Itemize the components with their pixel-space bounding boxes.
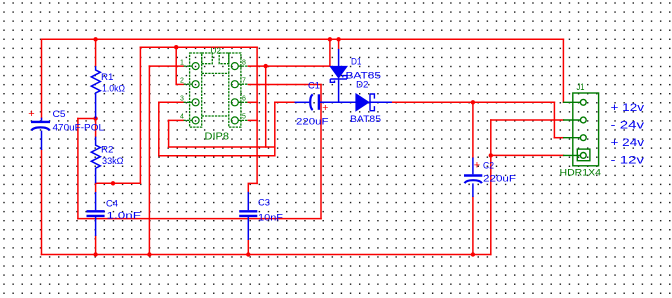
wire C5 bottom to ground rail [41,150,43,255]
wire horizontal y147 [169,146,275,148]
wire riser x176.2 to pin2 [175,47,177,84]
wire pin3 horizontal [159,101,184,103]
wire riser x274.8 to C1 left [274,102,276,155]
U2 pin leads left [184,65,192,67]
wire left drop from rail to C5 [41,39,43,117]
wire J1 pin2 horizontal [491,119,564,121]
wire C2 top drop [472,102,474,157]
svg-text:1.0nF: 1.0nF [107,211,142,222]
svg-text:C3: C3 [258,198,270,209]
wire pin4 horizontal [169,119,184,121]
IC socket U2 DIP8 (dashed green) [184,53,249,127]
svg-text:U2: U2 [211,46,222,56]
diode D1 BAT85 (pointing down) [330,49,347,102]
svg-text:+ 24v: + 24v [611,137,645,149]
wire left branch vertical x78 [77,119,79,219]
svg-text:220uF: 220uF [483,174,516,185]
svg-text:3: 3 [180,96,184,103]
wire riser x554.4 to J1 pin3 [553,102,555,137]
wire R2 bottom horizontal y183.3 [96,182,141,184]
svg-text:J1: J1 [577,82,585,93]
wire J1 pin3 stub [554,137,563,139]
junction rail/x329.9 [328,37,332,41]
wire pin6 stub [248,101,257,103]
wire C3 bottom to ground rail [247,240,249,255]
wire D2 output to J1 [392,101,555,103]
svg-text:2: 2 [180,78,184,85]
svg-text:+: + [474,160,480,172]
wire J1 pin1 drop from rail [562,39,564,102]
wire v2 x149.4 pin1 to ground [148,66,150,254]
junction x490.8/pin4 [489,153,493,157]
wire pin5 stub [248,119,257,121]
wire second rail y47.2 [140,46,257,48]
junction R1/R2 node [93,116,97,120]
junction ground/C2 [471,252,475,256]
junction second rail/riser [174,45,178,49]
wire riser x329.9 rail to pin8 line [329,39,331,66]
wire R1 top drop from rail [95,39,97,66]
svg-text:- 24v: - 24v [611,120,645,132]
svg-text:470uF-POL: 470uF-POL [53,123,105,134]
wire node R1-R2 branch horizontal [78,118,96,120]
junction ground/C4 [93,252,97,256]
svg-text:C1: C1 [308,81,320,92]
wire top +V rail [42,38,564,40]
svg-text:+: + [322,102,328,114]
svg-text:C2: C2 [483,161,494,172]
wire bottom ground rail [42,254,491,256]
svg-text:HDR1X4: HDR1X4 [560,168,602,179]
svg-text:33kΩ: 33kΩ [102,156,124,167]
svg-text:+: + [28,108,34,120]
svg-text:C4: C4 [106,199,118,210]
svg-text:+ 12v: + 12v [611,102,645,114]
svg-text:R2: R2 [101,145,114,156]
resistor R2 [91,137,100,184]
svg-text:- 12v: - 12v [611,155,645,167]
junction ground/v2 [147,252,151,256]
wire pin7 horizontal [248,84,321,86]
capacitor C4 [87,192,105,236]
svg-text:C5: C5 [53,109,66,120]
wire v1 x140.4 second-rail drop [139,47,141,183]
capacitor C3 [239,192,257,240]
wire C4 top stub [95,183,97,192]
wire pin1 horizontal [149,65,183,67]
junction ground/C3 [246,252,250,256]
resistor R1 [91,66,100,118]
wire pin3 drop x158.8 [158,102,160,155]
svg-text:1: 1 [180,60,184,67]
svg-text:D2: D2 [356,80,369,91]
junction pin8 line [264,64,268,68]
wire long vertical x257.1 [256,47,258,183]
wire horizontal y155.7 [159,155,275,157]
wire C2 bottom to ground rail [472,197,474,255]
wire C1 left connection [275,101,295,103]
svg-text:10nF: 10nF [258,213,283,224]
wire drop x265.7 from pin8 line [265,66,267,147]
svg-text:DIP8: DIP8 [205,132,230,143]
svg-text:1.0kΩ: 1.0kΩ [102,84,125,95]
wire J1 pin4 horizontal [491,154,564,156]
wire pin7 riser x321 [320,85,322,219]
wire D1 anode stub from rail [338,39,340,49]
svg-text:8: 8 [242,60,246,67]
wire pin4 drop x168.6 [168,120,170,147]
connector J1 HDR1X4 (green) [563,93,599,166]
wire C3 jog [248,183,257,191]
svg-text:BAT85: BAT85 [350,114,381,125]
junction D2 line/C2 [471,100,475,104]
svg-text:7: 7 [242,78,246,85]
wire pin2 stub [176,83,183,85]
svg-text:220uF: 220uF [296,117,329,128]
wire pin8 horizontal [248,65,330,67]
wire C4 bottom to ground rail [95,236,97,255]
svg-text:5: 5 [242,114,246,121]
svg-text:D1: D1 [351,57,362,67]
diode D2 BAT85 (pointing right) [356,94,375,111]
U2 pin holes [192,63,238,124]
capacitor C5 (polarized) [31,118,50,150]
junction rail/D1 [336,37,340,41]
wire right vertical x490.8 to ground rail [490,120,492,255]
svg-text:6: 6 [242,96,246,103]
capacitor C2 (polarized) [464,158,482,198]
junction y183.3 [111,181,115,185]
U2 pin leads right [239,65,249,67]
svg-text:4: 4 [180,114,184,121]
wire R2 top stub [95,119,97,137]
svg-text:R1: R1 [101,72,114,83]
junction rail/R1 [93,37,97,41]
wire long horizontal y218.6 [78,218,321,220]
capacitor C1 (polarized, horizontal) [295,94,392,110]
